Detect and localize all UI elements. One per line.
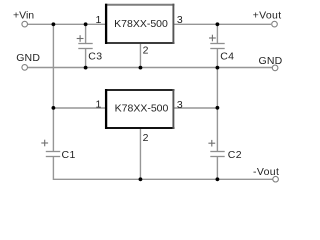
node junction C3 top: [84, 22, 88, 26]
terminal GND right: [272, 65, 278, 71]
wire C3 bottom lead: [85, 49, 87, 69]
svg-text:C2: C2: [228, 149, 242, 161]
svg-text:3: 3: [177, 14, 183, 26]
node junction U1 pin 2 on GND: [139, 66, 143, 70]
svg-text:+Vout: +Vout: [253, 9, 282, 21]
svg-text:K78XX-500: K78XX-500: [115, 103, 169, 115]
wire top-left rail (+Vin to U1 pin 1): [28, 23, 107, 25]
capacitor C3 polarity plus: [77, 35, 84, 42]
wire left vertical rail upper (above C1): [52, 24, 54, 152]
node junction C2 bottom on bottom rail: [216, 177, 220, 181]
node junction U2 pin 1 on left rail: [52, 106, 56, 110]
regulator U2 body: [105, 89, 174, 129]
node junction at left rail / top rail: [52, 22, 56, 26]
terminal -Vout: [273, 176, 279, 182]
capacitor C1 polarity plus: [41, 140, 48, 147]
svg-text:C3: C3: [88, 51, 102, 63]
wire right vertical rail (C4 bottom to C2 top): [216, 49, 218, 152]
svg-text:-Vout: -Vout: [253, 166, 279, 178]
svg-text:1: 1: [96, 98, 102, 110]
capacitor C4 plates: [210, 44, 224, 49]
wire GND rail: [28, 67, 272, 69]
svg-text:2: 2: [143, 44, 149, 56]
wire U2 pin 3 to right rail: [174, 107, 218, 109]
capacitor C3 plates: [78, 44, 92, 49]
regulator U1 body: [105, 4, 174, 44]
capacitor C2 polarity plus: [208, 140, 215, 147]
svg-text:GND: GND: [16, 52, 40, 64]
capacitor C4 polarity plus: [209, 35, 216, 42]
wire right vertical rail lower (below C2): [216, 157, 218, 181]
svg-text:C4: C4: [220, 51, 234, 63]
svg-text:C1: C1: [62, 149, 76, 161]
svg-text:3: 3: [177, 99, 183, 111]
node junction C3 bottom on GND: [84, 66, 88, 70]
node junction C4 top: [216, 22, 220, 26]
terminal +Vin: [22, 21, 28, 27]
svg-text:2: 2: [143, 132, 149, 144]
wire C4 top lead: [216, 24, 218, 44]
terminal GND left: [22, 65, 28, 71]
svg-text:1: 1: [96, 14, 102, 26]
terminal +Vout: [272, 21, 278, 27]
svg-text:K78XX-500: K78XX-500: [114, 18, 168, 30]
wire C3 top lead: [85, 24, 87, 44]
wire U1 pin 2 to GND rail: [139, 42, 141, 68]
node junction U2 pin 3 on right rail: [216, 106, 220, 110]
wire U2 pin 2 down: [139, 127, 141, 181]
node junction C4 bottom on GND: [216, 66, 220, 70]
svg-text:+Vin: +Vin: [13, 10, 34, 22]
node junction U2 pin 2 on bottom rail: [139, 177, 143, 181]
capacitor C2 plates: [210, 152, 224, 157]
capacitor C1 plates: [46, 152, 60, 157]
wire bottom rail (-Vout): [53, 178, 273, 180]
wire left vertical rail lower (below C1): [52, 157, 54, 181]
wire U2 pin 1 feed: [53, 107, 107, 109]
wire top-right rail (U1 pin 3 to +Vout): [174, 23, 271, 25]
svg-text:GND: GND: [259, 55, 283, 67]
